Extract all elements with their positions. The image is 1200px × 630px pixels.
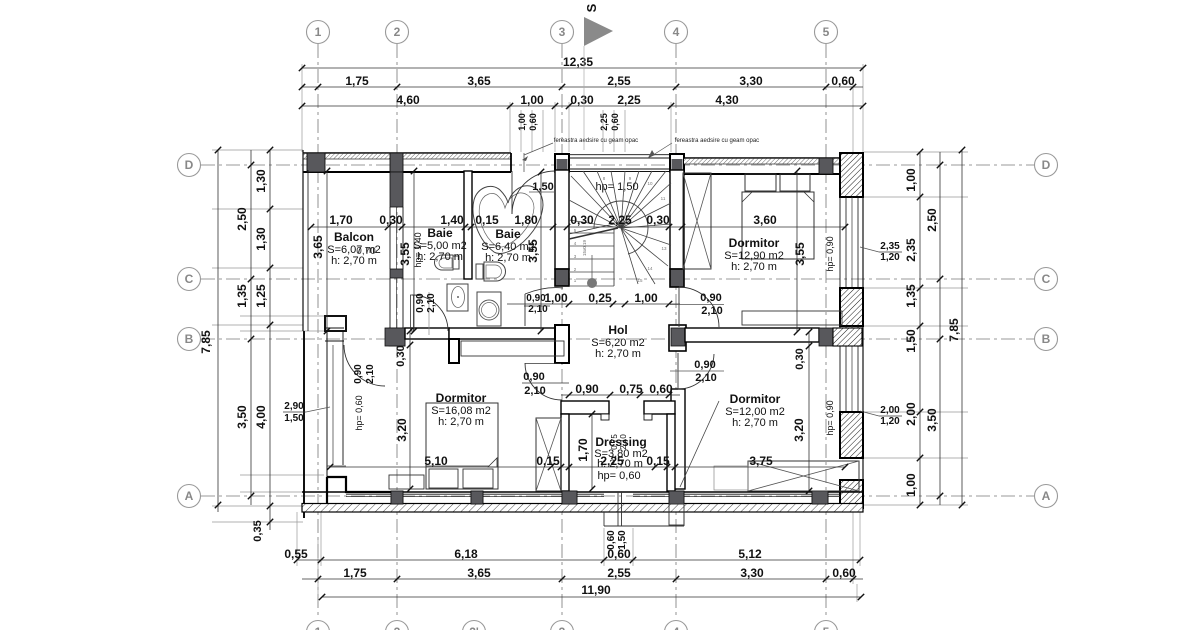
svg-text:0,90: 0,90 bbox=[694, 359, 715, 371]
svg-text:5: 5 bbox=[823, 25, 830, 39]
svg-text:2: 2 bbox=[394, 625, 401, 630]
svg-text:Dormitor: Dormitor bbox=[729, 236, 780, 250]
svg-text:3,20: 3,20 bbox=[395, 418, 409, 442]
svg-text:3,65: 3,65 bbox=[467, 566, 491, 580]
svg-text:0,60: 0,60 bbox=[649, 382, 673, 396]
svg-text:2,00: 2,00 bbox=[904, 402, 918, 426]
svg-text:fereastra aedsire cu geam opac: fereastra aedsire cu geam opac bbox=[675, 138, 759, 144]
svg-text:1,20: 1,20 bbox=[880, 252, 900, 263]
svg-text:D: D bbox=[185, 158, 194, 172]
svg-text:3,60: 3,60 bbox=[753, 213, 777, 227]
svg-text:0,30: 0,30 bbox=[794, 348, 806, 369]
svg-text:0,30: 0,30 bbox=[395, 345, 407, 366]
svg-text:3,30: 3,30 bbox=[739, 74, 763, 88]
svg-text:2,25: 2,25 bbox=[599, 113, 609, 131]
svg-text:1,50: 1,50 bbox=[617, 530, 628, 550]
svg-text:fereastra aedsire cu geam opac: fereastra aedsire cu geam opac bbox=[554, 138, 638, 144]
svg-text:1,70: 1,70 bbox=[329, 213, 353, 227]
svg-text:B: B bbox=[185, 332, 194, 346]
svg-text:11,90: 11,90 bbox=[581, 583, 611, 597]
svg-text:2,10: 2,10 bbox=[365, 364, 376, 384]
svg-text:7,85: 7,85 bbox=[947, 318, 961, 342]
svg-text:0,15: 0,15 bbox=[646, 454, 670, 468]
svg-text:2: 2 bbox=[394, 25, 401, 39]
svg-text:h: 2,70 m: h: 2,70 m bbox=[731, 261, 777, 273]
svg-text:Balcon: Balcon bbox=[334, 230, 374, 244]
svg-text:1,75: 1,75 bbox=[345, 74, 369, 88]
svg-text:1,00: 1,00 bbox=[904, 168, 918, 192]
svg-text:2': 2' bbox=[469, 625, 479, 630]
svg-text:2,10: 2,10 bbox=[695, 372, 716, 384]
svg-text:4,60: 4,60 bbox=[396, 93, 420, 107]
svg-text:1: 1 bbox=[315, 625, 322, 630]
svg-text:3: 3 bbox=[559, 625, 566, 630]
svg-text:h: 2,70 m: h: 2,70 m bbox=[438, 416, 484, 428]
svg-text:A: A bbox=[185, 489, 194, 503]
svg-text:11: 11 bbox=[661, 196, 666, 201]
svg-text:1,00: 1,00 bbox=[544, 291, 568, 305]
svg-text:1,75: 1,75 bbox=[343, 566, 367, 580]
svg-text:hp= 0,90: hp= 0,90 bbox=[825, 236, 835, 271]
svg-text:0,15: 0,15 bbox=[536, 454, 560, 468]
svg-text:Dormitor: Dormitor bbox=[730, 392, 781, 406]
svg-text:1,00: 1,00 bbox=[634, 291, 658, 305]
svg-text:1,35: 1,35 bbox=[235, 284, 249, 308]
svg-text:2,10: 2,10 bbox=[524, 385, 545, 397]
svg-text:13: 13 bbox=[661, 246, 667, 251]
svg-text:hp= 0,60: hp= 0,60 bbox=[597, 470, 640, 482]
svg-text:3,75: 3,75 bbox=[749, 454, 773, 468]
svg-text:0,35: 0,35 bbox=[252, 520, 264, 541]
svg-text:4: 4 bbox=[673, 25, 680, 39]
svg-text:10: 10 bbox=[647, 181, 653, 186]
svg-text:4,00: 4,00 bbox=[254, 405, 268, 429]
svg-text:2,35: 2,35 bbox=[880, 241, 900, 252]
svg-text:5: 5 bbox=[823, 625, 830, 630]
svg-text:1,20: 1,20 bbox=[880, 416, 900, 427]
svg-text:12,35: 12,35 bbox=[563, 55, 593, 69]
svg-text:h: 2,70 m: h: 2,70 m bbox=[485, 252, 531, 264]
svg-text:h: 2,70 m: h: 2,70 m bbox=[417, 251, 463, 263]
svg-text:2,25: 2,25 bbox=[608, 213, 632, 227]
svg-text:0,90: 0,90 bbox=[415, 293, 426, 313]
svg-text:Baie: Baie bbox=[495, 227, 521, 241]
svg-text:0,25: 0,25 bbox=[588, 291, 612, 305]
svg-text:h: 2,70 m: h: 2,70 m bbox=[597, 458, 643, 470]
svg-text:C: C bbox=[185, 272, 194, 286]
svg-text:2,55: 2,55 bbox=[607, 74, 631, 88]
svg-text:h: 2,70 m: h: 2,70 m bbox=[732, 417, 778, 429]
svg-text:0,30: 0,30 bbox=[570, 93, 594, 107]
svg-text:14: 14 bbox=[647, 266, 653, 271]
svg-text:3,50: 3,50 bbox=[235, 405, 249, 429]
svg-text:2,50: 2,50 bbox=[235, 207, 249, 231]
svg-text:S: S bbox=[584, 3, 599, 12]
svg-text:5,10: 5,10 bbox=[424, 454, 448, 468]
svg-text:C: C bbox=[1042, 272, 1051, 286]
svg-text:3,55: 3,55 bbox=[793, 242, 807, 266]
svg-text:h: 2,70 m: h: 2,70 m bbox=[595, 348, 641, 360]
svg-text:0,30: 0,30 bbox=[646, 213, 670, 227]
svg-text:hp= 0,90: hp= 0,90 bbox=[825, 400, 835, 435]
svg-text:0,90: 0,90 bbox=[353, 364, 364, 384]
svg-text:0,70: 0,70 bbox=[356, 246, 376, 257]
svg-text:4,30: 4,30 bbox=[715, 93, 739, 107]
svg-text:0,30: 0,30 bbox=[570, 213, 594, 227]
svg-text:2,10: 2,10 bbox=[426, 293, 437, 313]
svg-text:3,65: 3,65 bbox=[311, 235, 325, 259]
svg-text:1,25: 1,25 bbox=[254, 284, 268, 308]
svg-text:5,12: 5,12 bbox=[738, 547, 762, 561]
svg-text:1,00: 1,00 bbox=[520, 93, 544, 107]
svg-text:0,60: 0,60 bbox=[528, 113, 538, 131]
svg-text:1,00: 1,00 bbox=[904, 473, 918, 497]
svg-text:2,10: 2,10 bbox=[701, 305, 722, 317]
svg-text:0,30: 0,30 bbox=[379, 213, 403, 227]
svg-text:15: 15 bbox=[637, 278, 643, 283]
svg-text:2,55: 2,55 bbox=[607, 566, 631, 580]
svg-text:0,55: 0,55 bbox=[284, 547, 308, 561]
svg-text:Hol: Hol bbox=[608, 323, 627, 337]
svg-text:1: 1 bbox=[315, 25, 322, 39]
svg-text:1,00: 1,00 bbox=[517, 113, 527, 131]
svg-text:Dormitor: Dormitor bbox=[436, 391, 487, 405]
svg-text:Dressing: Dressing bbox=[595, 435, 646, 449]
svg-text:0,90: 0,90 bbox=[526, 293, 546, 304]
svg-text:1,30: 1,30 bbox=[254, 169, 268, 193]
svg-text:2,90: 2,90 bbox=[284, 401, 304, 412]
svg-text:1,35: 1,35 bbox=[904, 284, 918, 308]
svg-text:0,90: 0,90 bbox=[575, 382, 599, 396]
svg-text:1,50: 1,50 bbox=[904, 329, 918, 353]
svg-text:B: B bbox=[1042, 332, 1051, 346]
svg-text:3,55: 3,55 bbox=[398, 242, 412, 266]
svg-text:1,80: 1,80 bbox=[514, 213, 538, 227]
svg-text:hp= 0,60: hp= 0,60 bbox=[354, 395, 364, 430]
svg-text:3,30: 3,30 bbox=[740, 566, 764, 580]
svg-text:0,60: 0,60 bbox=[831, 74, 855, 88]
svg-text:0,90: 0,90 bbox=[523, 371, 544, 383]
svg-text:0,15: 0,15 bbox=[475, 213, 499, 227]
svg-text:A: A bbox=[1042, 489, 1051, 503]
svg-text:1,30: 1,30 bbox=[254, 227, 268, 251]
svg-text:1,40: 1,40 bbox=[440, 213, 464, 227]
svg-text:0,90: 0,90 bbox=[700, 292, 721, 304]
svg-text:0,60: 0,60 bbox=[606, 530, 617, 550]
svg-text:2,50: 2,50 bbox=[925, 208, 939, 232]
svg-text:4: 4 bbox=[673, 625, 680, 630]
svg-text:2,35: 2,35 bbox=[904, 238, 918, 262]
svg-text:hp= 1,50: hp= 1,50 bbox=[595, 181, 638, 193]
svg-text:2,00: 2,00 bbox=[880, 405, 900, 416]
svg-text:D: D bbox=[1042, 158, 1051, 172]
svg-text:0,75: 0,75 bbox=[619, 382, 643, 396]
svg-text:2,25: 2,25 bbox=[617, 93, 641, 107]
svg-text:1,50: 1,50 bbox=[284, 413, 304, 424]
svg-text:3,20: 3,20 bbox=[792, 418, 806, 442]
svg-text:6,18: 6,18 bbox=[454, 547, 478, 561]
svg-text:3,50: 3,50 bbox=[925, 408, 939, 432]
svg-text:0,60: 0,60 bbox=[610, 113, 620, 131]
svg-text:1,70: 1,70 bbox=[576, 438, 590, 462]
svg-text:Baie: Baie bbox=[427, 226, 453, 240]
svg-text:3: 3 bbox=[559, 25, 566, 39]
svg-text:15x0,19: 15x0,19 bbox=[582, 239, 587, 256]
svg-text:7,85: 7,85 bbox=[199, 330, 213, 354]
svg-text:1,50: 1,50 bbox=[532, 181, 553, 193]
svg-text:0,60: 0,60 bbox=[832, 566, 856, 580]
svg-text:3,65: 3,65 bbox=[467, 74, 491, 88]
